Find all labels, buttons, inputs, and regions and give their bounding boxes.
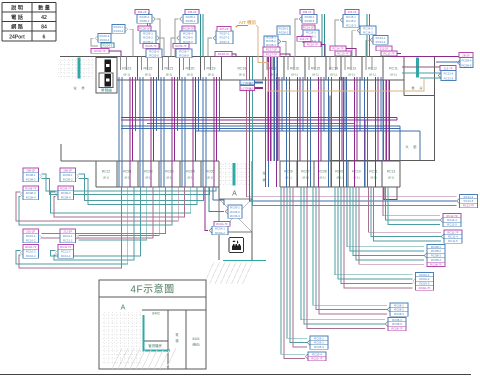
svg-text:RC08-5: RC08-5 xyxy=(392,322,402,326)
svg-text:(8-1): (8-1) xyxy=(291,73,298,77)
svg-text:RC04-7F: RC04-7F xyxy=(94,49,106,53)
svg-text:RC09-2: RC09-2 xyxy=(230,210,240,214)
svg-text:RC05-7F: RC05-7F xyxy=(145,44,157,48)
svg-text:RC09-7F: RC09-7F xyxy=(60,187,72,191)
svg-text:RC05-7F: RC05-7F xyxy=(311,357,323,361)
svg-text:4F示意圖: 4F示意圖 xyxy=(130,283,174,296)
svg-text:RC16: RC16 xyxy=(290,67,299,71)
svg-text:電: 電 xyxy=(73,85,76,90)
svg-text:RC13: RC13 xyxy=(387,170,396,174)
svg-text:RC12: RC12 xyxy=(368,67,377,71)
svg-text:AIT 機房: AIT 機房 xyxy=(239,19,257,26)
svg-text:RC08: RC08 xyxy=(318,170,327,174)
svg-text:RC05-2F: RC05-2F xyxy=(139,26,151,30)
svg-text:RC12: RC12 xyxy=(102,170,111,174)
svg-text:RC08-4: RC08-4 xyxy=(26,196,36,200)
svg-text:RC09-1: RC09-1 xyxy=(63,173,73,177)
svg-text:RC10-1: RC10-1 xyxy=(26,234,36,238)
svg-text:RC08-3: RC08-3 xyxy=(266,43,276,47)
svg-text:RC14: RC14 xyxy=(329,67,338,71)
svg-text:RC11-4: RC11-4 xyxy=(448,235,458,239)
svg-text:RC0B-4: RC0B-4 xyxy=(462,59,472,63)
svg-text:RC04-5: RC04-5 xyxy=(103,43,113,47)
svg-text:205-2F: 205-2F xyxy=(188,10,197,14)
svg-text:(8-1): (8-1) xyxy=(103,176,109,180)
svg-text:管排機房: 管排機房 xyxy=(148,343,162,348)
svg-text:RC13-2: RC13-2 xyxy=(376,40,386,44)
svg-text:上行2F機房: 上行2F機房 xyxy=(241,81,254,85)
svg-text:RC11-5: RC11-5 xyxy=(448,239,458,243)
svg-text:208-2F: 208-2F xyxy=(26,169,35,173)
svg-text:RC0B-1: RC0B-1 xyxy=(431,245,441,249)
svg-text:RC12-4: RC12-4 xyxy=(447,218,457,222)
svg-text:RC12-7F: RC12-7F xyxy=(446,214,458,218)
svg-text:RC13-7F: RC13-7F xyxy=(463,204,475,208)
svg-text:(8-1): (8-1) xyxy=(145,73,152,77)
svg-text:RC11-1: RC11-1 xyxy=(63,234,73,238)
svg-text:RC05-2: RC05-2 xyxy=(186,19,196,23)
svg-text:RC10-7F: RC10-7F xyxy=(25,245,37,249)
svg-text:RC05-5: RC05-5 xyxy=(149,54,159,58)
svg-text:RC06: RC06 xyxy=(284,170,293,174)
svg-text:RC09-2: RC09-2 xyxy=(63,178,73,182)
svg-text:電 話: 電 話 xyxy=(11,13,24,21)
svg-text:RC07: RC07 xyxy=(301,170,310,174)
svg-text:A: A xyxy=(121,305,126,312)
svg-text:RC05-1: RC05-1 xyxy=(314,336,324,340)
svg-text:RC16-2F: RC16-2F xyxy=(303,25,315,29)
svg-text:RC0A-1: RC0A-1 xyxy=(420,273,430,277)
svg-text:RC08-7F: RC08-7F xyxy=(25,187,37,191)
svg-text:(8-1): (8-1) xyxy=(390,73,397,77)
svg-text:RC13: RC13 xyxy=(347,67,356,71)
svg-text:RC11-2: RC11-2 xyxy=(63,239,73,243)
svg-text:RC0B-5: RC0B-5 xyxy=(462,64,472,68)
svg-text:網 路: 網 路 xyxy=(11,23,24,31)
svg-text:84: 84 xyxy=(41,25,47,31)
svg-text:RC10: RC10 xyxy=(352,170,361,174)
svg-text:211-2F: 211-2F xyxy=(63,230,72,234)
svg-text:房: 房 xyxy=(419,85,422,90)
svg-text:RC06-7F: RC06-7F xyxy=(175,44,187,48)
svg-text:24Port: 24Port xyxy=(9,34,25,40)
svg-text:207-2F: 207-2F xyxy=(220,27,229,31)
svg-text:(8-1): (8-1) xyxy=(348,73,355,77)
svg-text:RC0B-4: RC0B-4 xyxy=(431,258,441,262)
svg-text:RC09-3: RC09-3 xyxy=(230,214,240,218)
svg-text:昇降機: 昇降機 xyxy=(101,88,112,93)
svg-text:RC11-7F: RC11-7F xyxy=(60,245,71,249)
svg-text:RC06-2F: RC06-2F xyxy=(183,26,195,30)
svg-text:RC17-7F: RC17-7F xyxy=(266,52,278,56)
svg-text:208-2F: 208-2F xyxy=(303,10,312,14)
svg-text:RC04-4: RC04-4 xyxy=(100,38,110,42)
svg-text:RC11: RC11 xyxy=(389,67,398,71)
svg-text:RC0A-7F: RC0A-7F xyxy=(216,222,228,226)
svg-text:8404: 8404 xyxy=(192,337,199,341)
svg-text:說 明: 說 明 xyxy=(11,4,23,12)
svg-text:(機房): (機房) xyxy=(192,342,200,347)
svg-text:RC09-3: RC09-3 xyxy=(61,191,71,195)
svg-text:RC11-7F: RC11-7F xyxy=(383,51,394,55)
svg-text:數 量: 數 量 xyxy=(38,4,51,12)
svg-text:RC09-1: RC09-1 xyxy=(230,205,240,209)
svg-text:RC22: RC22 xyxy=(144,67,153,71)
svg-text:RC11-7F: RC11-7F xyxy=(447,230,458,234)
svg-text:211-2F: 211-2F xyxy=(380,46,389,50)
svg-text:RC04-2: RC04-2 xyxy=(114,29,124,33)
svg-text:RC10-4: RC10-4 xyxy=(26,254,36,258)
svg-text:(8-1): (8-1) xyxy=(239,73,246,77)
svg-text:RC0A-2: RC0A-2 xyxy=(420,277,430,281)
svg-text:206-2F: 206-2F xyxy=(138,10,147,14)
svg-text:RC09-2: RC09-2 xyxy=(279,31,289,35)
svg-text:RC08-5: RC08-5 xyxy=(305,19,315,23)
svg-text:RC0B-2: RC0B-2 xyxy=(431,249,441,253)
svg-text:RC13-5: RC13-5 xyxy=(444,77,454,81)
svg-text:RC08-4: RC08-4 xyxy=(392,318,402,322)
svg-text:RC0A-2: RC0A-2 xyxy=(215,231,225,235)
svg-text:RC13-5: RC13-5 xyxy=(464,199,474,203)
svg-text:RC06-8: RC06-8 xyxy=(179,54,189,58)
svg-text:42: 42 xyxy=(41,15,47,21)
svg-text:209-2F: 209-2F xyxy=(63,169,72,173)
svg-text:(8-1): (8-1) xyxy=(312,73,319,77)
svg-text:RC08-1: RC08-1 xyxy=(394,303,404,307)
svg-text:RC14-7F: RC14-7F xyxy=(332,46,344,50)
svg-text:A: A xyxy=(232,191,237,198)
svg-text:210-2F: 210-2F xyxy=(26,230,35,234)
svg-text:RC05-3: RC05-3 xyxy=(314,345,324,349)
svg-text:RC09-4: RC09-4 xyxy=(61,196,71,200)
svg-text:RC13-4: RC13-4 xyxy=(444,72,454,76)
svg-text:上行2F機房: 上行2F機房 xyxy=(241,86,254,90)
svg-text:RC08-3: RC08-3 xyxy=(26,191,36,195)
svg-text:RC06-2: RC06-2 xyxy=(140,19,150,23)
svg-text:(8-1): (8-1) xyxy=(330,73,337,77)
svg-text:RC08-2: RC08-2 xyxy=(394,308,404,312)
svg-text:RC0A-3: RC0A-3 xyxy=(420,282,430,286)
svg-text:213-7F: 213-7F xyxy=(444,66,453,70)
svg-text:(8-1): (8-1) xyxy=(123,73,130,77)
svg-text:(8-1): (8-1) xyxy=(207,176,213,180)
svg-text:216-7F: 216-7F xyxy=(300,37,309,41)
svg-text:(8-1): (8-1) xyxy=(369,73,376,77)
svg-text:RC14-2: RC14-2 xyxy=(363,31,373,35)
svg-text:215-2F: 215-2F xyxy=(348,10,357,14)
svg-text:RC10-2: RC10-2 xyxy=(26,239,36,243)
svg-text:RC0A-1: RC0A-1 xyxy=(215,227,225,231)
svg-text:RC11-3: RC11-3 xyxy=(61,250,71,254)
svg-text:(8-1): (8-1) xyxy=(208,73,215,77)
svg-text:RC08-1: RC08-1 xyxy=(26,173,36,177)
svg-text:RC16-7F: RC16-7F xyxy=(307,42,319,46)
svg-text:RC13-7F: RC13-7F xyxy=(337,51,349,55)
svg-text:(8-1): (8-1) xyxy=(388,176,394,180)
svg-text:機: 機 xyxy=(411,85,414,90)
svg-text:RC17-2F: RC17-2F xyxy=(266,47,278,51)
svg-text:(8-1): (8-1) xyxy=(319,176,325,180)
svg-text:(8-1): (8-1) xyxy=(187,73,194,77)
svg-text:(8-1): (8-1) xyxy=(166,73,173,77)
svg-text:RC08-2: RC08-2 xyxy=(26,178,36,182)
svg-text:RC0A-7F: RC0A-7F xyxy=(419,286,431,290)
svg-text:RC13-4: RC13-4 xyxy=(464,195,474,199)
svg-text:RC15-3: RC15-3 xyxy=(346,23,356,27)
svg-text:梯: 梯 xyxy=(81,85,84,90)
svg-text:RC11: RC11 xyxy=(369,170,377,174)
svg-text:RC21: RC21 xyxy=(165,67,174,71)
svg-text:6: 6 xyxy=(43,34,46,40)
svg-text:RC20: RC20 xyxy=(186,67,195,71)
svg-text:RC05: RC05 xyxy=(206,170,215,174)
svg-text:RC07-3: RC07-3 xyxy=(220,40,230,44)
svg-text:RC08-7F: RC08-7F xyxy=(391,327,403,331)
svg-text:RC18-7F: RC18-7F xyxy=(218,52,230,56)
svg-text:RC0B-3: RC0B-3 xyxy=(431,254,441,258)
svg-text:RC05-4: RC05-4 xyxy=(312,352,322,356)
svg-text:8402: 8402 xyxy=(152,312,160,316)
svg-text:RC18: RC18 xyxy=(238,67,247,71)
svg-text:RC15: RC15 xyxy=(311,67,320,71)
svg-text:RC05-2: RC05-2 xyxy=(314,341,324,345)
svg-text:2B-2F: 2B-2F xyxy=(462,53,470,57)
svg-text:RC12-5: RC12-5 xyxy=(447,223,457,227)
svg-text:RC10-3: RC10-3 xyxy=(26,250,36,254)
svg-text:RC11-4: RC11-4 xyxy=(61,254,71,258)
svg-text:RC19: RC19 xyxy=(207,67,216,71)
svg-text:RC0B-7F: RC0B-7F xyxy=(430,262,442,266)
svg-text:RC08-3: RC08-3 xyxy=(394,312,404,316)
